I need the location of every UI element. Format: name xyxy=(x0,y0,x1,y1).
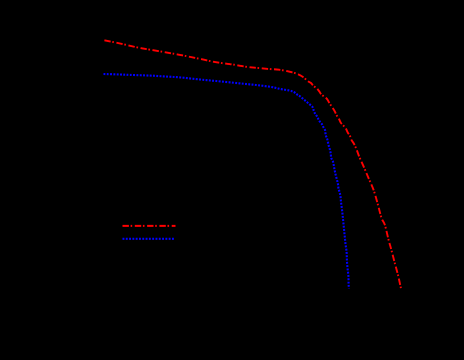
red dash-dot curve (upper trace) xyxy=(104,40,402,295)
blue dotted curve (lower trace) xyxy=(104,74,350,295)
legend red dash-dot sample xyxy=(123,225,176,227)
legend blue dotted sample xyxy=(123,238,175,240)
